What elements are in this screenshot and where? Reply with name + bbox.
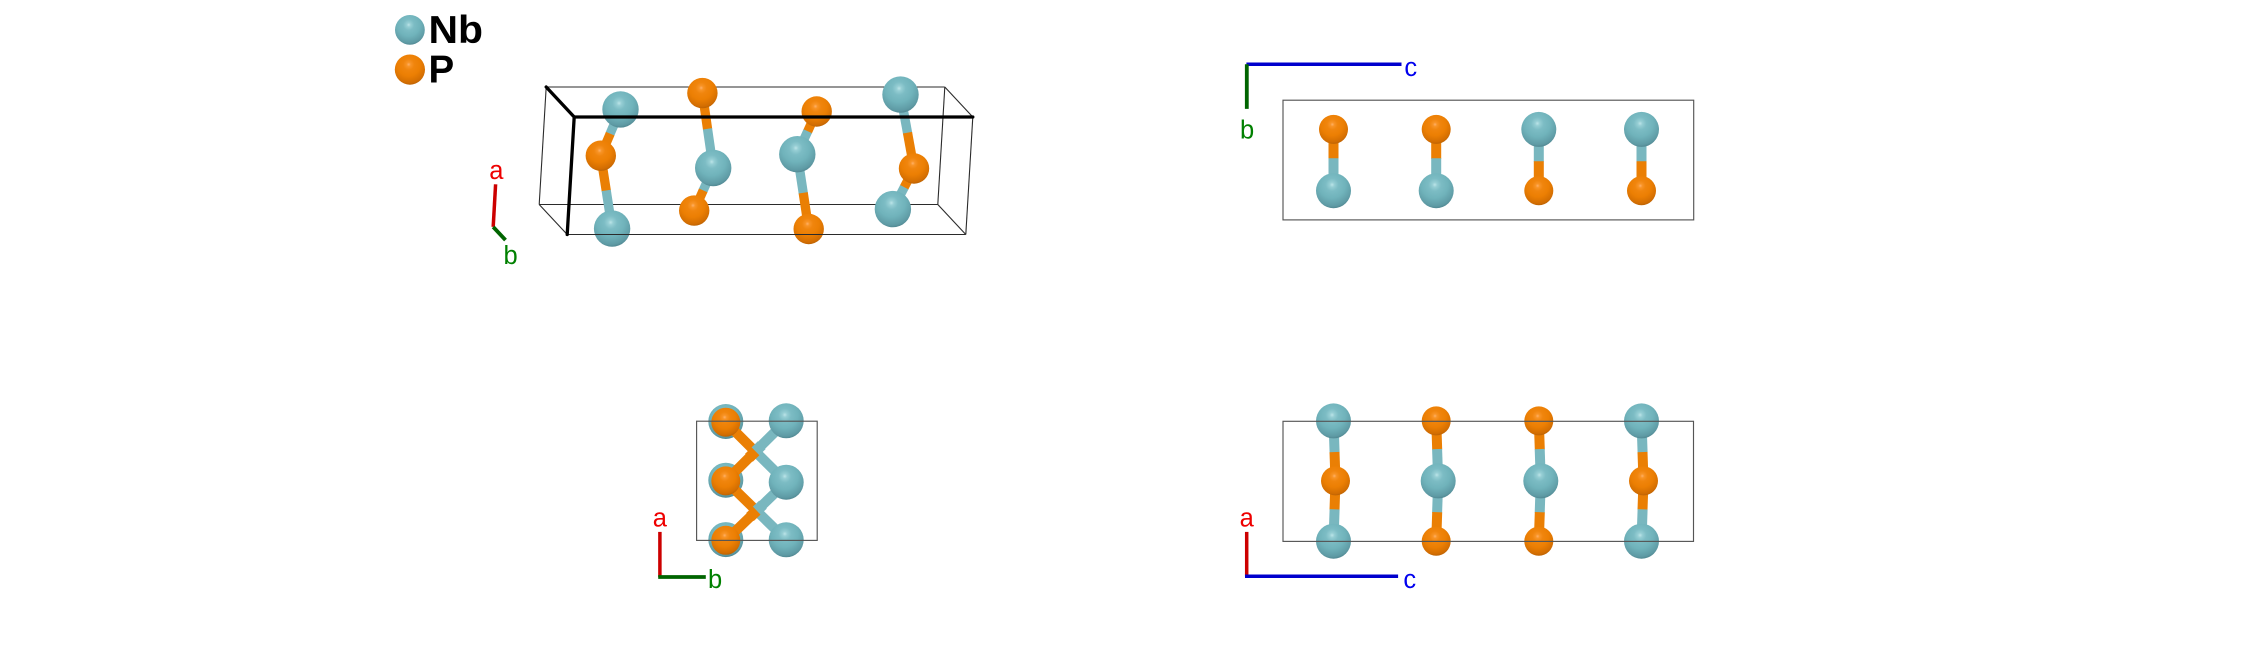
svg-text:P: P — [429, 49, 455, 92]
svg-text:c: c — [1404, 54, 1417, 82]
svg-text:c: c — [1403, 566, 1416, 594]
svg-text:a: a — [489, 157, 504, 185]
svg-text:Nb: Nb — [429, 9, 484, 52]
svg-text:b: b — [708, 566, 722, 594]
svg-text:b: b — [504, 242, 518, 270]
svg-text:a: a — [653, 505, 668, 533]
svg-text:b: b — [1240, 117, 1254, 145]
svg-text:a: a — [1240, 505, 1255, 533]
